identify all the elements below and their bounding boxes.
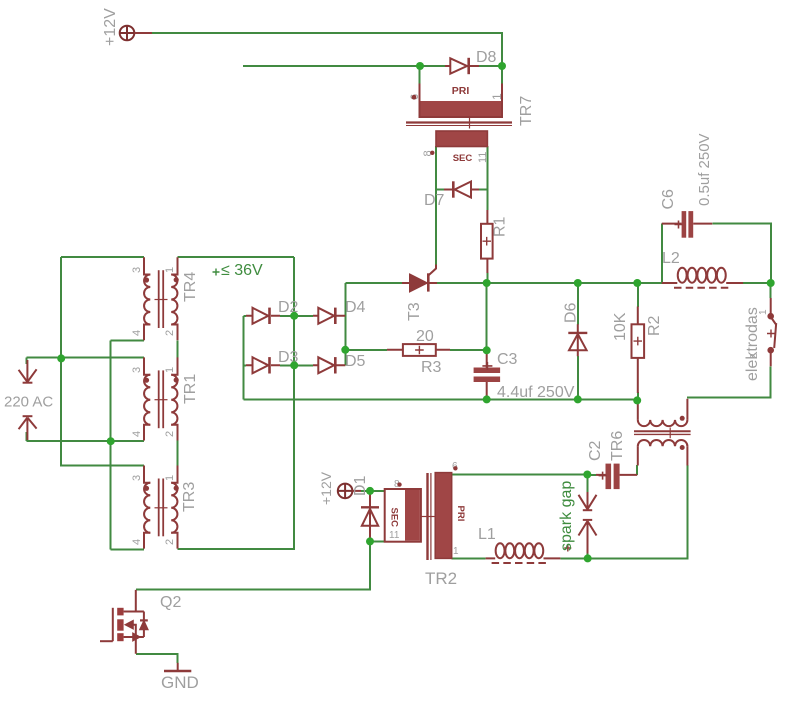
svg-text:0.5uf 250V: 0.5uf 250V <box>696 133 713 206</box>
diode D2 <box>246 308 280 324</box>
wire D8 cathode to corner <box>479 65 502 67</box>
inductor L2 <box>662 268 743 288</box>
capacitor C3 <box>474 353 501 400</box>
svg-text:220 AC: 220 AC <box>4 394 53 411</box>
upper winding <box>637 400 639 420</box>
diode D5 <box>313 357 345 373</box>
supply +12V symbol top left <box>120 26 152 41</box>
supply +12V symbol 2 <box>338 484 361 499</box>
inductor L1 <box>486 543 561 563</box>
220 AC arrow top <box>19 360 37 383</box>
svg-text:D4: D4 <box>345 299 366 316</box>
spark gap arrows <box>564 492 596 554</box>
wire TR6 lower left stub to C2 <box>636 465 638 475</box>
wire main bus T3 to R1 junction <box>437 282 662 284</box>
svg-text:11: 11 <box>477 152 489 163</box>
diode D7 <box>444 181 479 197</box>
svg-text:R3: R3 <box>421 359 442 376</box>
svg-text:2: 2 <box>164 431 176 437</box>
wire D2 D3 anode connector down to bus2 <box>242 316 244 400</box>
wire TR3 pin4 row <box>111 548 144 550</box>
wire TR6 lower right vertical to spark gap row <box>588 465 688 558</box>
svg-text:SEC: SEC <box>453 153 473 164</box>
svg-text:4: 4 <box>131 539 143 545</box>
transformer TR4 <box>144 257 179 340</box>
svg-text:PRI: PRI <box>455 506 466 522</box>
svg-text:R1: R1 <box>492 216 509 237</box>
svg-text:20: 20 <box>416 328 434 345</box>
svg-text:+12V: +12V <box>318 471 334 505</box>
diode D4 <box>313 308 345 324</box>
wire TR2 pri top to spark gap top <box>452 474 588 476</box>
core <box>634 430 691 432</box>
wire C2 row left <box>587 474 596 476</box>
wire D2 row to D4 <box>243 315 313 317</box>
lower winding <box>637 446 639 465</box>
TR3 pin labels 3 1 4 2 <box>131 475 176 545</box>
svg-text:≤ 36V: ≤ 36V <box>221 262 263 279</box>
svg-text:D8: D8 <box>476 49 497 66</box>
transformer TR2 primary bar <box>435 461 466 558</box>
svg-text:Q2: Q2 <box>160 594 181 611</box>
transformer TR7 core <box>406 118 512 129</box>
junction R1 bottom at main bus <box>483 279 491 287</box>
resistor R2 <box>632 307 645 394</box>
junction C3 bottom at lower bus <box>483 395 491 403</box>
wire R3 row <box>345 349 486 351</box>
junction D3 cathode at bank vertical <box>290 361 298 369</box>
wire 36V top rail TR4 <box>61 256 294 258</box>
svg-text:1: 1 <box>164 475 176 481</box>
capacitor C2 <box>596 464 637 490</box>
wire TR2 pri bottom row to L1 <box>452 557 486 559</box>
svg-text:C3: C3 <box>497 351 518 368</box>
wire 220AC bottom row to TR1 pin4 <box>27 432 144 441</box>
svg-text:2: 2 <box>749 353 760 359</box>
svg-text:10K: 10K <box>612 312 629 341</box>
wire D1 junction down to Q2 drain row <box>136 541 370 589</box>
wire TR1.2 to TR3.1 <box>177 441 179 482</box>
svg-text:1: 1 <box>453 546 459 557</box>
svg-text:1: 1 <box>164 267 176 273</box>
svg-text:TR1: TR1 <box>182 374 199 404</box>
wire Q2 source to GND <box>136 654 178 663</box>
junction D6 bottom at lower bus <box>574 395 582 403</box>
wire +12V top rail <box>151 33 502 66</box>
transformer TR7 secondary box <box>422 131 489 164</box>
wire C6 right side loop <box>712 224 771 283</box>
label 36V green <box>213 262 264 279</box>
svg-text:D7: D7 <box>424 192 445 209</box>
svg-text:3: 3 <box>131 475 143 481</box>
svg-text:D6: D6 <box>563 302 580 323</box>
wire TR7 sec left down to D7 and T3 gate <box>435 146 437 265</box>
transformer TR7 primary box <box>409 66 504 117</box>
wire R2 lower stub <box>637 392 639 400</box>
wire D3 row to D5 <box>243 364 313 366</box>
polarity dots <box>680 416 685 421</box>
svg-text:1: 1 <box>758 309 769 315</box>
wire R1 bottom stub <box>486 273 488 284</box>
junction TR1 pin4 at x110 vertical <box>107 437 115 445</box>
wire C3 branch <box>486 283 488 353</box>
svg-text:TR4: TR4 <box>182 272 199 302</box>
diode D6 <box>568 324 587 356</box>
svg-text:L2: L2 <box>662 250 680 267</box>
wire bus2 lower rail <box>243 398 637 400</box>
junction R3 right at C3 branch <box>483 346 491 354</box>
junction TR7 pri pin6 / D8 anode net <box>416 62 424 70</box>
svg-text:GND: GND <box>161 673 199 692</box>
wire TR4 pin4 to x110 vertical <box>111 339 144 341</box>
resistor R3 <box>387 344 450 356</box>
svg-text:R2: R2 <box>646 315 663 336</box>
wire left bank vertical x61 to TR3 pin3 <box>61 257 144 465</box>
svg-text:4: 4 <box>131 330 143 336</box>
transformer TR2 core <box>422 473 437 560</box>
wire main bus y283 left part <box>345 282 402 284</box>
svg-text:2: 2 <box>164 539 176 545</box>
junction +12V supply / D1 anode / TR2 pin8 <box>366 487 374 495</box>
svg-text:PRI: PRI <box>452 85 470 97</box>
transformer TR1 <box>144 357 179 440</box>
thyristor T3 <box>402 265 437 292</box>
transformer TR6 <box>634 399 691 466</box>
junction C6 right / elektrodas at main bus <box>767 279 775 287</box>
junction TR7 pri pin1 / D8 cathode / +12V rail <box>498 62 506 70</box>
wire R2 upper stub <box>637 283 639 307</box>
svg-text:T3: T3 <box>406 302 423 321</box>
wire D6 branch <box>577 283 579 399</box>
junction 220AC line at left vertical <box>57 354 65 362</box>
svg-text:3: 3 <box>131 267 143 273</box>
svg-text:D1: D1 <box>352 475 369 496</box>
svg-text:TR3: TR3 <box>181 482 198 512</box>
wire right bank vertical x294 <box>178 257 295 549</box>
TR1 pin labels 3 1 4 2 <box>131 367 176 437</box>
svg-text:4: 4 <box>131 431 143 437</box>
diode D8 <box>445 58 479 74</box>
svg-text:L1: L1 <box>478 526 496 543</box>
wire x110 vertical TR4.4 to TR3.4 <box>110 340 112 549</box>
diode D3 <box>246 357 280 373</box>
wire spark gap stubs <box>587 475 589 559</box>
mosfet Q2 <box>100 590 148 654</box>
svg-text:3: 3 <box>131 367 143 373</box>
wire 220AC top row to TR1 pin3 <box>27 358 144 365</box>
diode D1 <box>361 491 379 542</box>
wire +12V2 to D1 junction and TR2 sec pin8 <box>361 490 385 492</box>
capacitor C6 <box>662 211 713 238</box>
junction R2 top at main bus <box>633 279 641 287</box>
transformer TR2 secondary box <box>385 479 421 542</box>
wire TR7 primary top from x243 <box>243 65 445 67</box>
svg-text:2: 2 <box>164 330 176 336</box>
wire L1 to spark gap bottom junction <box>560 557 587 559</box>
svg-text:spark gap: spark gap <box>558 481 575 551</box>
wire TR4.2 to TR1.1 <box>177 340 179 374</box>
svg-text:TR7: TR7 <box>518 96 535 126</box>
junction R2 bottom / TR6 pin at lower bus <box>633 396 641 404</box>
transformer TR3 <box>144 466 179 549</box>
svg-text:TR6: TR6 <box>609 431 626 461</box>
svg-text:SEC: SEC <box>389 508 400 528</box>
wire main bus L2 right to corner <box>743 282 771 284</box>
junction D2 cathode at bank vertical <box>290 312 298 320</box>
svg-text:4.4uf 250V: 4.4uf 250V <box>497 384 575 401</box>
svg-text:C6: C6 <box>660 189 677 210</box>
wire elektrodas top stub <box>770 283 772 298</box>
svg-text:+12V: +12V <box>102 8 119 46</box>
svg-text:TR2: TR2 <box>425 569 457 588</box>
wire elektrodas bottom stub <box>687 366 771 397</box>
wire bridge vertical D4 D5 cathodes <box>344 283 346 365</box>
wire D1 bottom junction to TR2 sec pin11 <box>370 540 385 542</box>
svg-text:D5: D5 <box>345 353 366 370</box>
svg-text:elektrodas: elektrodas <box>744 307 761 381</box>
svg-text:1: 1 <box>164 367 176 373</box>
junction L1 right / spark gap bottom / TR6 return <box>584 554 592 562</box>
junction D1 cathode / TR2 pin11 / Q2 drain net <box>366 537 374 545</box>
svg-text:1: 1 <box>490 93 504 100</box>
wire C6 left vertical <box>661 224 663 283</box>
junction TR2 pri top / C2 / spark gap top <box>583 471 591 479</box>
svg-text:11: 11 <box>389 530 400 541</box>
wire TR7 sec right down to R1 <box>486 146 488 210</box>
ground GND <box>164 663 191 671</box>
spark gap electrode switch elektrodas <box>767 298 776 366</box>
wire D7 row <box>436 189 487 191</box>
junction R3 left at bridge vertical <box>341 346 349 354</box>
resistor R1 <box>481 210 493 273</box>
svg-text:C2: C2 <box>587 440 604 461</box>
220 AC arrow bottom <box>19 416 37 440</box>
TR4 pin labels 3 1 4 2 <box>131 267 176 336</box>
junction D6 top at main bus <box>574 279 582 287</box>
